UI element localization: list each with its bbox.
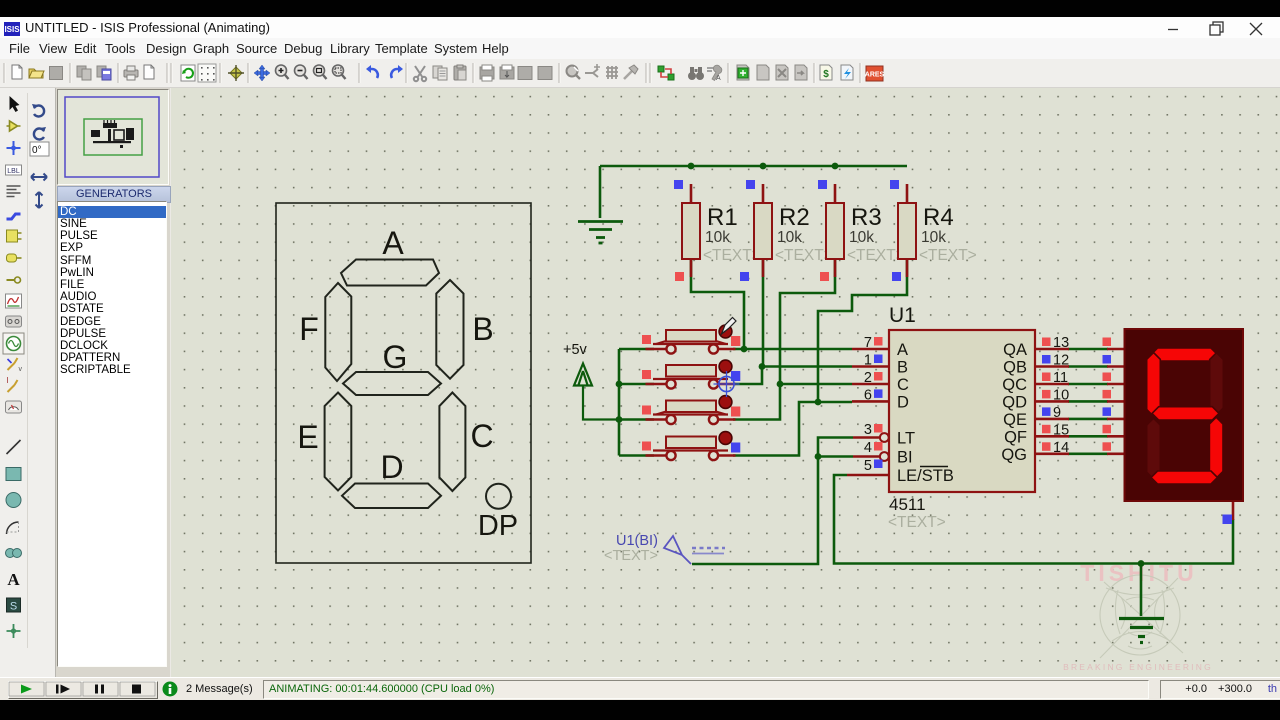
state square pin 5 <box>874 460 883 469</box>
display bottom state square <box>1223 515 1233 525</box>
wire R3 bottom to node C <box>780 259 835 384</box>
U1 BI inversion bubble <box>880 452 889 461</box>
state square pin 13 <box>1042 338 1051 347</box>
state square display b <box>1103 355 1112 364</box>
junction node A <box>741 346 748 353</box>
push button SW3 <box>646 396 736 425</box>
wire row1 to pin A <box>733 348 852 351</box>
resistor R1 <box>682 184 761 277</box>
power +5v symbol <box>574 364 619 420</box>
svg-text:<TEXT>: <TEXT> <box>775 247 833 264</box>
segment F (sketch) <box>325 283 351 381</box>
svg-text:R4: R4 <box>923 204 954 231</box>
svg-text:QE: QE <box>1003 411 1027 429</box>
segment C (sketch) <box>439 393 465 492</box>
state square SW3 right <box>731 407 740 417</box>
svg-text:<TEXT>: <TEXT> <box>604 548 658 564</box>
7-segment display body <box>1125 329 1244 501</box>
state square R3 bottom <box>820 272 829 281</box>
pin lead display common cathode <box>1232 501 1235 520</box>
svg-text:11: 11 <box>1053 370 1068 386</box>
svg-text:R1: R1 <box>707 204 738 231</box>
wire QC to display <box>1068 383 1108 386</box>
state square pin 3 <box>874 424 883 433</box>
pin lead display c <box>1107 383 1125 386</box>
svg-text:ISIS: ISIS <box>4 25 20 34</box>
svg-text:15: 15 <box>1053 422 1069 438</box>
state square SW4 left <box>642 442 651 451</box>
svg-text:13: 13 <box>1053 335 1069 351</box>
wire QG to display <box>1068 452 1108 455</box>
svg-text:I: I <box>7 376 9 385</box>
svg-text:$: $ <box>823 69 829 80</box>
segment G (sketch) <box>343 372 441 395</box>
state square R4 top <box>890 180 899 189</box>
state square R2 bottom <box>740 272 749 281</box>
TISHITU watermark <box>1063 560 1213 672</box>
display segment G (lit) <box>1152 407 1219 420</box>
resistor R3 <box>826 184 905 277</box>
state square R2 top <box>746 180 755 189</box>
svg-text:10: 10 <box>1053 387 1069 403</box>
svg-text:10k: 10k <box>849 229 874 246</box>
U1 right pin state squares col1 <box>1042 338 1051 451</box>
pin lead U1 QB pin 12 <box>1035 365 1069 368</box>
menu bar <box>0 38 1280 59</box>
state square pin 9 <box>1042 407 1051 416</box>
wire ground drop (display) <box>1140 564 1143 617</box>
display segment B (unlit) <box>1210 353 1224 415</box>
junction R2 top rail <box>760 163 767 170</box>
overbar on STB <box>920 466 948 468</box>
display side state squares col2 <box>1103 338 1112 451</box>
resistor R2 <box>754 184 833 277</box>
segment E (sketch) <box>325 393 352 491</box>
svg-text:QC: QC <box>1002 376 1027 394</box>
wire QF to display <box>1068 435 1108 438</box>
wire DC generator to LT/BI <box>692 438 853 565</box>
mouse cursor (pencil) <box>722 318 737 335</box>
svg-text:A: A <box>7 570 20 589</box>
svg-text:BREAKING ENGINEERING: BREAKING ENGINEERING <box>1063 662 1213 672</box>
state square R1 bottom <box>675 272 684 281</box>
sidebar: overview + generators <box>56 88 170 677</box>
junction +5v rail row3 <box>616 416 623 423</box>
pin lead U1 QG pin 14 <box>1035 452 1069 455</box>
pin lead U1 B pin 1 <box>852 365 889 368</box>
wire LE/STB to display ground net <box>834 475 1233 564</box>
state square pin 10 <box>1042 390 1051 399</box>
state square pin 1 <box>874 355 883 364</box>
junction BI node <box>815 453 822 460</box>
wire row2 up to node B and pin B <box>733 367 852 385</box>
svg-text:A: A <box>716 75 721 82</box>
state square pin 12 <box>1042 355 1051 364</box>
svg-text:QD: QD <box>1002 394 1027 412</box>
pin lead U1 A pin 7 <box>852 348 889 351</box>
pin lead U1 QA pin 13 <box>1035 348 1069 351</box>
wire top rail <box>600 165 907 168</box>
segment B (sketch) <box>436 280 463 379</box>
svg-text:7: 7 <box>864 335 872 351</box>
wire row4 up to node D and pin D <box>733 402 852 456</box>
svg-text:QB: QB <box>1003 359 1027 377</box>
svg-text:4: 4 <box>864 440 872 456</box>
svg-text:3: 3 <box>864 422 872 438</box>
svg-text:D: D <box>897 394 909 412</box>
DP circle (sketch) <box>486 484 511 509</box>
svg-text:A: A <box>897 341 908 359</box>
state square display e <box>1103 407 1112 416</box>
svg-text:LT: LT <box>897 430 915 448</box>
pin lead U1 LT pin 3 <box>853 436 880 439</box>
pin lead U1 C pin 2 <box>852 383 889 386</box>
U1 LT inversion bubble <box>880 433 889 442</box>
state square display d <box>1103 390 1112 399</box>
svg-text:0°: 0° <box>32 145 42 156</box>
IC U1 4511 <box>888 304 1035 531</box>
pin lead display e <box>1107 418 1125 421</box>
wire R4 bottom to node D <box>818 259 907 402</box>
state square pin 2 <box>874 372 883 381</box>
crosshair cursor <box>714 371 740 397</box>
pin lead display g <box>1107 452 1125 455</box>
pin lead display b <box>1107 365 1125 368</box>
svg-text:1: 1 <box>864 353 872 369</box>
pin lead U1 BI pin 4 <box>853 455 880 458</box>
resistor R4 <box>898 184 977 277</box>
push button SW1 <box>646 325 736 354</box>
title bar <box>0 17 1280 38</box>
state square SW1 right <box>731 336 740 346</box>
svg-text:G: G <box>383 339 408 375</box>
state square display c <box>1103 373 1112 382</box>
state square pin 6 <box>874 389 883 398</box>
pin lead U1 LE/STB pin 5 <box>847 474 889 477</box>
svg-text:6: 6 <box>864 387 872 403</box>
svg-text:+5v: +5v <box>563 342 588 358</box>
svg-text:10k: 10k <box>921 229 946 246</box>
svg-text:R2: R2 <box>779 204 810 231</box>
wire QD to display <box>1068 400 1108 403</box>
state square SW2 left <box>642 370 651 379</box>
svg-text:2: 2 <box>864 370 872 386</box>
pin lead U1 QF pin 15 <box>1035 435 1069 438</box>
svg-text:10k: 10k <box>705 229 730 246</box>
svg-text:<TEXT>: <TEXT> <box>888 514 946 531</box>
svg-text:S: S <box>10 601 17 613</box>
state square display f <box>1103 425 1112 434</box>
wire row3 up to node C and pin C <box>733 384 852 420</box>
wire R1 bottom to row1 <box>691 259 744 349</box>
state square pin 14 <box>1042 442 1051 451</box>
svg-text:U1: U1 <box>889 304 916 327</box>
display segment C (lit) <box>1209 417 1223 478</box>
svg-text:4511: 4511 <box>889 495 926 514</box>
svg-text:ARES: ARES <box>865 72 885 79</box>
pin lead U1 QE pin 9 <box>1035 418 1069 421</box>
junction node C <box>777 381 784 388</box>
junction display ground node <box>1138 560 1145 567</box>
svg-text:R3: R3 <box>851 204 882 231</box>
junction +5v rail row2 <box>616 381 623 388</box>
status bar <box>0 677 1280 701</box>
wire ground stub <box>599 166 602 218</box>
svg-text:LBL: LBL <box>7 168 20 175</box>
push button SW2 <box>646 360 736 389</box>
junction node D <box>815 399 822 406</box>
svg-text:QA: QA <box>1003 341 1027 359</box>
pin lead U1 D pin 6 <box>852 400 889 403</box>
svg-text:C: C <box>470 418 493 454</box>
DC generator U1(BI) <box>604 533 725 564</box>
svg-text:QF: QF <box>1004 428 1027 446</box>
segment D (sketch) <box>342 484 441 509</box>
state square R1 top <box>674 180 683 189</box>
wire R2 bottom to node B <box>762 259 765 367</box>
svg-text:<TEXT>: <TEXT> <box>919 247 977 264</box>
svg-text:LE/STB: LE/STB <box>897 467 954 485</box>
svg-text:DP: DP <box>478 510 518 542</box>
display segment A (lit) <box>1151 348 1218 361</box>
junction R1 top rail <box>688 163 695 170</box>
state square pin 7 <box>874 337 883 346</box>
svg-text:B: B <box>897 359 908 377</box>
svg-text:<TEXT>: <TEXT> <box>847 247 905 264</box>
pin lead U1 QC pin 11 <box>1035 383 1069 386</box>
display segment D (lit) <box>1151 471 1218 484</box>
junction R3 top rail <box>832 163 839 170</box>
svg-text:10k: 10k <box>777 229 802 246</box>
state square display g <box>1103 442 1112 451</box>
svg-text:B: B <box>472 311 493 347</box>
state square pin 4 <box>874 442 883 451</box>
U1 left pin state squares <box>874 337 883 468</box>
svg-text:U1(BI): U1(BI) <box>616 533 658 549</box>
ground (top-left) <box>578 222 623 244</box>
svg-text:A: A <box>382 225 404 261</box>
state square SW1 left <box>642 335 651 344</box>
state square SW4 right <box>731 443 740 453</box>
pin lead display d <box>1107 400 1125 403</box>
push button SW4 <box>646 432 736 461</box>
svg-text:QG: QG <box>1001 446 1027 464</box>
svg-text:<TEXT>: <TEXT> <box>703 247 761 264</box>
toolbar <box>0 59 1280 88</box>
state square R3 top <box>818 180 827 189</box>
ground (bottom) <box>1119 619 1164 643</box>
svg-text:12: 12 <box>1053 353 1069 369</box>
pin lead display a <box>1107 348 1125 351</box>
pin lead U1 QD pin 10 <box>1035 400 1069 403</box>
wire QA to display <box>1068 348 1108 351</box>
state square R4 bottom <box>892 272 901 281</box>
state square SW2 right <box>731 371 740 381</box>
svg-text:BI: BI <box>897 449 913 467</box>
junction node B <box>759 363 766 370</box>
svg-text:v: v <box>19 366 23 373</box>
wire QE to display <box>1068 418 1108 421</box>
7-segment sketch frame <box>276 203 531 563</box>
svg-text:E: E <box>297 419 318 455</box>
svg-text:C: C <box>897 376 909 394</box>
svg-text:9: 9 <box>1053 405 1061 421</box>
segment A (sketch) <box>341 260 439 286</box>
state square pin 11 <box>1042 373 1051 382</box>
svg-text:14: 14 <box>1053 440 1069 456</box>
svg-text:5: 5 <box>864 458 872 474</box>
display segment F (lit) <box>1147 353 1161 417</box>
state square pin 15 <box>1042 425 1051 434</box>
pin lead display f <box>1107 435 1125 438</box>
svg-text:D: D <box>380 449 403 485</box>
svg-text:F: F <box>299 311 319 347</box>
left tool strip <box>0 88 56 677</box>
wire QB to display <box>1068 365 1108 368</box>
wire +5v rail left <box>619 349 654 456</box>
state square display a <box>1103 338 1112 347</box>
state square SW3 left <box>642 406 651 415</box>
display segment E (unlit) <box>1147 418 1161 479</box>
top black bar <box>0 0 1280 17</box>
